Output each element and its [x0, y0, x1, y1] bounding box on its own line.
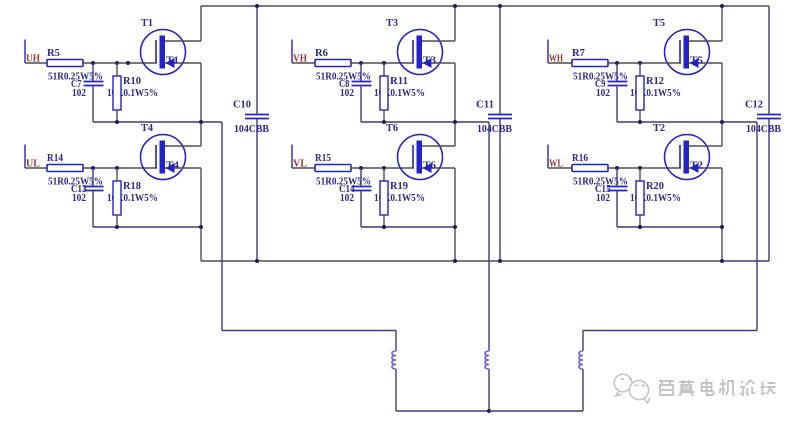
port WL input stub — [548, 145, 572, 169]
svg-text:R12: R12 — [646, 76, 664, 87]
inductor motor winding W — [579, 351, 583, 369]
wire leg vertical bottom (T6 source to bottom bus) — [454, 168, 456, 261]
wire gate-return bottom of cell — [93, 226, 201, 228]
wire leg vertical phase node (T1 source to T4 drain) — [200, 63, 202, 146]
node C10 top bus junction — [255, 4, 259, 8]
node bottom bus junction — [453, 259, 457, 263]
svg-text:R16: R16 — [572, 153, 588, 164]
svg-text:C11: C11 — [476, 100, 494, 111]
wire top DC bus — [201, 5, 769, 7]
wire winding U to star point — [396, 369, 489, 411]
transistor T3 — [386, 18, 455, 75]
node cell-bottom junction dots — [638, 225, 724, 229]
svg-text:T4: T4 — [166, 161, 179, 172]
svg-text:102: 102 — [72, 88, 86, 99]
capacitor C8 102 (gate-source) — [339, 63, 372, 122]
node cell-bottom junction dots — [382, 225, 457, 229]
node C11 top bus junction — [498, 4, 502, 8]
svg-text:102: 102 — [340, 193, 354, 204]
svg-text:T6: T6 — [386, 123, 398, 134]
node bottom bus junction — [720, 259, 724, 263]
wire bottom DC bus blue segment — [722, 260, 769, 262]
svg-text:102: 102 — [596, 193, 610, 204]
node gate junction dots — [359, 61, 386, 65]
wire gate-return bottom of cell — [617, 226, 722, 228]
svg-text:C12: C12 — [745, 100, 763, 111]
capacitor C7 102 (gate-source) — [71, 63, 104, 122]
wire gate-return bottom of cell — [361, 121, 489, 123]
wire phase W to winding — [582, 331, 584, 352]
wire phase W horizontal — [583, 330, 757, 332]
svg-text:102: 102 — [596, 88, 610, 99]
capacitor C13 102 (gate-source) — [71, 168, 104, 227]
resistor R11 10K 0.1W 5% (gate-source) — [374, 63, 425, 122]
port VH input stub — [292, 40, 315, 64]
transistor T2 — [653, 123, 722, 180]
resistor R19 10K 0.1W 5% (gate-source) — [374, 168, 425, 227]
resistor R6 51R 0.25W 5% (series gate) — [315, 48, 371, 83]
wire gate-return bottom of cell — [617, 121, 757, 123]
wire leg vertical top (drain riser T1) — [200, 6, 202, 41]
node cell-bottom junction dots — [115, 120, 203, 124]
node cell-bottom junction dots — [638, 120, 724, 124]
svg-text:R10: R10 — [123, 76, 141, 87]
resistor R15 51R 0.25W 5% (series gate) — [315, 153, 371, 188]
svg-text:R5: R5 — [47, 48, 60, 59]
wire leg vertical top (drain riser T5) — [721, 6, 723, 41]
transistor T5 — [653, 18, 722, 75]
svg-text:102: 102 — [72, 193, 86, 204]
wire leg vertical top (drain riser T3) — [454, 6, 456, 41]
svg-text:R11: R11 — [390, 76, 408, 87]
wire gate row — [608, 167, 681, 169]
svg-text:T1: T1 — [166, 56, 179, 67]
resistor R10 10K 0.1W 5% (gate-source) — [107, 63, 158, 122]
svg-text:104CBB: 104CBB — [477, 124, 512, 135]
svg-text:R14: R14 — [47, 153, 63, 164]
svg-text:R15: R15 — [315, 153, 331, 164]
svg-text:104CBB: 104CBB — [746, 124, 781, 135]
wire gate row — [351, 167, 414, 169]
node gate junction dots — [615, 61, 642, 65]
svg-text:VH: VH — [293, 54, 307, 65]
resistor R7 51R 0.25W 5% (series gate) — [572, 48, 628, 83]
wire phase U to winding — [395, 331, 397, 352]
resistor R14 51R 0.25W 5% (series gate) — [47, 153, 103, 188]
wire leg vertical phase node (T5 source to T2 drain) — [721, 63, 723, 146]
svg-text:T6: T6 — [423, 161, 436, 172]
capacitor C9 102 (gate-source) — [595, 63, 628, 122]
svg-text:T3: T3 — [386, 18, 398, 29]
node gate junction dots — [91, 61, 130, 65]
node top bus junction — [453, 4, 457, 8]
wire gate row — [83, 62, 157, 64]
node gate junction dots — [615, 166, 642, 170]
svg-text:UL: UL — [26, 159, 40, 170]
transistor T4 — [141, 123, 202, 180]
port UH input stub — [25, 40, 47, 64]
svg-text:R7: R7 — [572, 48, 585, 59]
svg-text:UH: UH — [26, 54, 40, 65]
inductor motor winding V — [485, 351, 489, 369]
svg-text:C10: C10 — [233, 100, 251, 111]
capacitor C11 104CBB (DC bus) — [476, 6, 512, 261]
svg-text:104CBB: 104CBB — [234, 124, 269, 135]
svg-text:T4: T4 — [141, 123, 153, 134]
svg-text:WH: WH — [549, 54, 563, 65]
port VL input stub — [292, 145, 315, 169]
watermark text 西莫电机论坛 (drawn strokes) — [659, 379, 776, 396]
capacitor C12 104CBB (DC bus) — [745, 6, 781, 261]
node C10 bottom bus junction — [255, 259, 259, 263]
wire leg vertical bottom (T4 source to bottom bus) — [200, 168, 202, 261]
wire gate-return bottom of cell — [361, 226, 455, 228]
inductor motor winding U — [392, 351, 396, 369]
svg-text:R20: R20 — [646, 181, 664, 192]
wire phase U output vertical — [221, 122, 223, 331]
resistor R16 51R 0.25W 5% (series gate) — [572, 153, 628, 188]
resistor R18 10K 0.1W 5% (gate-source) — [107, 168, 158, 227]
svg-text:T2: T2 — [690, 161, 703, 172]
wire winding V to star point — [488, 369, 490, 411]
svg-text:R18: R18 — [123, 181, 141, 192]
svg-text:102: 102 — [340, 88, 354, 99]
capacitor C14 102 (gate-source) — [339, 168, 372, 227]
watermark logo icon (two chat bubbles) — [614, 374, 650, 403]
transistor T6 — [386, 123, 455, 180]
node C11 bottom bus junction — [498, 259, 502, 263]
capacitor C15 102 (gate-source) — [595, 168, 628, 227]
node cell-bottom junction dots — [115, 225, 203, 229]
resistor R20 10K 0.1W 5% (gate-source) — [630, 168, 681, 227]
svg-text:WL: WL — [549, 159, 563, 170]
wire winding W to star point — [489, 369, 583, 411]
wire phase W output vertical — [756, 122, 758, 331]
svg-text:T1: T1 — [141, 18, 153, 29]
capacitor C10 104CBB (DC bus) — [233, 6, 269, 261]
svg-text:T3: T3 — [423, 56, 436, 67]
svg-text:R6: R6 — [315, 48, 328, 59]
svg-text:T5: T5 — [653, 18, 665, 29]
svg-text:R19: R19 — [390, 181, 408, 192]
node cell-bottom junction dots — [382, 120, 457, 124]
node star point — [487, 409, 491, 413]
wire gate row — [351, 62, 414, 64]
wire leg vertical phase node (T3 source to T6 drain) — [454, 63, 456, 146]
resistor R5 51R 0.25W 5% (series gate) — [47, 48, 103, 83]
svg-text:T2: T2 — [653, 123, 665, 134]
wire phase V output vertical — [488, 122, 490, 351]
port WH input stub — [548, 40, 572, 64]
wire leg vertical bottom (T2 source to bottom bus) — [721, 168, 723, 261]
svg-text:T5: T5 — [690, 56, 703, 67]
wire bottom DC bus — [201, 260, 722, 262]
wire gate-return bottom of cell — [93, 121, 222, 123]
transistor T1 — [141, 18, 202, 75]
wire phase U horizontal — [222, 330, 396, 332]
node gate junction dots — [359, 166, 386, 170]
wire gate row — [608, 62, 681, 64]
port UL input stub — [25, 145, 47, 169]
wire gate row — [83, 167, 157, 169]
resistor R12 10K 0.1W 5% (gate-source) — [630, 63, 681, 122]
svg-text:VL: VL — [293, 159, 307, 170]
node gate junction dots — [91, 166, 119, 170]
node top bus junction — [720, 4, 724, 8]
